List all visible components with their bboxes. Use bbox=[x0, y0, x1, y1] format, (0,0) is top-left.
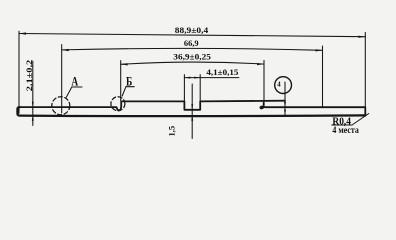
svg-text:4: 4 bbox=[277, 81, 281, 88]
svg-text:88,9±0,4: 88,9±0,4 bbox=[175, 25, 209, 35]
dimension 1,5 : upper arrow (pointing down to slot bottom) bbox=[191, 104, 193, 110]
surface callout arrow on lower face bbox=[284, 102, 286, 107]
dimension 66,9 : left arrow bbox=[62, 49, 69, 51]
detail circle B (dashed) bbox=[111, 97, 125, 111]
dimension 1,5 : lower arrow (pointing up to bottom face) bbox=[191, 115, 193, 121]
dimension 88,9±0,4 : left arrow bbox=[19, 32, 26, 34]
dimension 36,9±0,25 : extension line right (right step) bbox=[263, 60, 265, 100]
dimension 66,9 : extension line right bbox=[322, 46, 324, 108]
detail B leader bbox=[122, 87, 134, 96]
dimension 2,1±0,2 : vertical dimension line at left end bbox=[32, 61, 34, 126]
detail A leader bbox=[66, 87, 82, 97]
dimension 88,9±0,4 : extension line right (part right edge extended) bbox=[364, 32, 366, 107]
svg-text:А: А bbox=[71, 74, 78, 89]
dimension 36,9±0,25 : left arrow bbox=[121, 63, 128, 65]
dimension 88,9±0,4 : extension line left bbox=[18, 31, 20, 113]
detail circle A (dashed) bbox=[52, 97, 70, 115]
svg-text:36,9±0,25: 36,9±0,25 bbox=[173, 51, 211, 61]
surface callout circle 4 bbox=[275, 77, 292, 94]
dimension 88,9±0,4 : dimension line bbox=[19, 34, 365, 37]
dimension 36,9±0,25 : extension line left (step B) bbox=[120, 61, 122, 101]
svg-text:4 места: 4 места bbox=[332, 125, 359, 135]
dimension 4,1±0,15 : right arrow bbox=[194, 77, 200, 79]
dimension 4,1±0,15 : extension line right (slot right edge) bbox=[199, 75, 201, 102]
svg-text:66,9: 66,9 bbox=[184, 38, 199, 48]
svg-text:1,5: 1,5 bbox=[166, 126, 176, 137]
dimension 1,5 : slot centerline / dimension line bbox=[191, 84, 193, 139]
dimension 66,9 : dimension line bbox=[62, 48, 323, 50]
svg-text:2,1±0,2: 2,1±0,2 bbox=[24, 60, 34, 92]
part outline (flat contact bar, side view) bbox=[20, 101, 366, 115]
dimension 2,1±0,2 : upper arrow (pointing down to top face) bbox=[32, 102, 34, 108]
svg-text:Б: Б bbox=[126, 73, 132, 88]
underline of R0,4 bbox=[332, 124, 352, 126]
dimension 66,9 : right arrow bbox=[316, 49, 323, 51]
dimension 4,1±0,15 : left arrow bbox=[184, 77, 190, 79]
dimension 36,9±0,25 : right arrow bbox=[257, 63, 264, 65]
svg-text:4,1±0,15: 4,1±0,15 bbox=[206, 67, 238, 77]
dimension 66,9 : extension line left (through detail A) bbox=[61, 45, 63, 113]
dimension 4,1±0,15 : extension line left (slot left edge) bbox=[183, 75, 185, 102]
surface callout arrow at bottom edge bbox=[284, 110, 286, 115]
leader R0,4 to bottom-right corner bbox=[352, 114, 369, 126]
dimension 4,1±0,15 : dimension line bbox=[184, 77, 239, 79]
surface callout leader line bbox=[284, 82, 286, 115]
part outline: bottom edge and rounded left end bbox=[17, 107, 365, 116]
dimension 88,9±0,4 : right arrow bbox=[358, 36, 365, 38]
dimension 2,1±0,2 : lower arrow (pointing up to bottom face) bbox=[32, 115, 34, 121]
dimension 36,9±0,25 : dimension line bbox=[121, 62, 264, 64]
